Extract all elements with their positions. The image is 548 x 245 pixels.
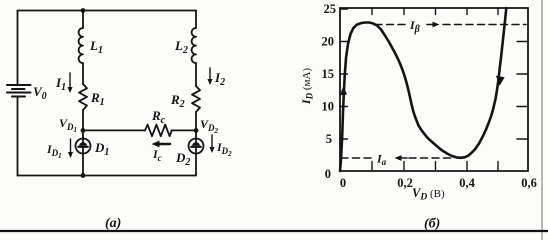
dashed line I_a level: [341, 157, 452, 159]
svg-text:(а): (а): [105, 216, 121, 231]
svg-text:20: 20: [322, 35, 335, 49]
diode D2: [189, 139, 204, 154]
svg-text:R2: R2: [170, 92, 185, 110]
tunnel diode characteristic curve: [340, 8, 506, 171]
svg-text:VD2: VD2: [200, 117, 219, 135]
svg-text:D2: D2: [175, 150, 190, 168]
resistor R2: [192, 86, 200, 112]
top border ticks: [372, 8, 498, 15]
svg-text:ID (мА): ID (мА): [299, 68, 315, 105]
wire: left rail upper: [17, 11, 19, 85]
wire: R1 to node VD1: [82, 110, 84, 139]
svg-text:0,2: 0,2: [397, 176, 413, 190]
wire: bottom bus: [18, 175, 197, 177]
wire: D1 to bottom bus: [82, 153, 84, 176]
current arrow Ic: [152, 141, 171, 148]
node: bottom junction of branch 1: [81, 173, 86, 178]
current arrow ID2: [209, 135, 214, 153]
wire: left rail lower: [17, 97, 19, 176]
svg-text:I1: I1: [55, 75, 66, 93]
resistor R1: [79, 84, 87, 110]
wire: between L1 and R1: [82, 63, 84, 84]
wire: branch1 top stub: [82, 11, 84, 29]
node VD1: [81, 128, 86, 133]
y tick labels: [322, 2, 337, 181]
chart frame: y axis: [339, 8, 341, 171]
battery V0: [7, 85, 31, 97]
page right border: [541, 0, 543, 240]
wire: coupling link left: [83, 129, 145, 131]
svg-text:V0: V0: [33, 84, 47, 102]
svg-text:VD1: VD1: [59, 116, 77, 134]
svg-text:Iа: Iа: [376, 152, 387, 168]
chart frame: right border: [527, 8, 529, 171]
wire: between L2 and R2: [195, 63, 197, 86]
dashed line I_B level: [375, 24, 526, 26]
svg-text:0,4: 0,4: [459, 176, 475, 190]
svg-text:25: 25: [324, 2, 337, 16]
svg-text:Iβ: Iβ: [409, 18, 421, 35]
right border ticks: [517, 42, 528, 140]
current arrow I1: [67, 73, 72, 93]
svg-text:R1: R1: [90, 90, 105, 108]
wire: top bus: [18, 10, 197, 12]
svg-text:L2: L2: [174, 38, 188, 56]
svg-text:D1: D1: [94, 140, 109, 158]
wire: R2 to node VD2: [195, 112, 197, 139]
svg-text:I2: I2: [214, 70, 225, 88]
arrow up on rising branch: [340, 86, 347, 95]
svg-text:ID2: ID2: [216, 140, 232, 158]
wire: coupling link right: [171, 129, 196, 131]
current arrow ID1: [68, 139, 73, 158]
svg-text:Rc: Rc: [151, 108, 166, 126]
svg-text:10: 10: [322, 100, 335, 114]
arrow on I_B line: [427, 22, 440, 28]
svg-text:L1: L1: [89, 38, 103, 56]
svg-text:15: 15: [322, 67, 335, 81]
inductor L2: [192, 28, 196, 63]
node: top junction of branch 1: [81, 8, 86, 13]
arrow on I_a line: [395, 155, 408, 161]
svg-text:Ic: Ic: [152, 147, 162, 163]
svg-text:0,6: 0,6: [521, 176, 537, 190]
x axis ticks: [372, 162, 498, 172]
svg-text:0: 0: [340, 176, 346, 190]
chart frame: x axis: [340, 170, 528, 172]
page bottom rule: [0, 230, 548, 232]
svg-text:ID1: ID1: [46, 142, 62, 160]
svg-text:(б): (б): [424, 217, 440, 232]
diode D1: [76, 139, 91, 154]
svg-text:0: 0: [325, 167, 331, 181]
chart frame: top border: [340, 7, 528, 9]
y axis ticks: [340, 9, 348, 139]
x tick labels: [340, 176, 537, 190]
resistor Rc: [145, 125, 172, 137]
arrow down on falling right branch: [496, 76, 505, 86]
svg-text:VD (В): VD (В): [412, 186, 445, 203]
current arrow I2: [207, 68, 212, 85]
svg-text:5: 5: [326, 132, 332, 146]
inductor L1: [79, 28, 83, 63]
wire: D2 to bottom bus: [195, 153, 197, 176]
node VD2: [194, 128, 199, 133]
wire: branch2 top stub: [195, 11, 197, 29]
